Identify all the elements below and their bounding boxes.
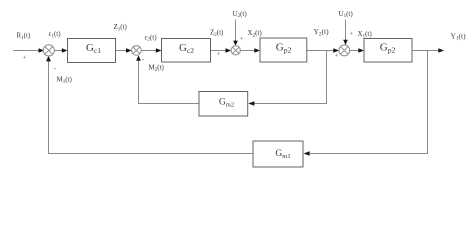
svg-text:+: + [217, 51, 221, 58]
svg-text:ε2(t): ε2(t) [145, 33, 158, 42]
svg-text:+: + [335, 53, 339, 60]
svg-text:U2(t): U2(t) [233, 10, 248, 19]
svg-text:M1(t): M1(t) [57, 76, 73, 85]
svg-text:Z1(t): Z1(t) [114, 23, 128, 32]
svg-text:X1(t): X1(t) [358, 30, 373, 39]
svg-text:+: + [240, 36, 244, 43]
svg-text:X2(t): X2(t) [248, 29, 263, 38]
svg-text:Y1(t): Y1(t) [451, 31, 467, 41]
svg-text:U1(t): U1(t) [339, 10, 354, 19]
svg-text:Y2(t): Y2(t) [314, 27, 330, 37]
svg-text:R1(t): R1(t) [17, 32, 31, 41]
svg-text:-: - [142, 57, 144, 64]
svg-text:M2(t): M2(t) [149, 64, 165, 73]
svg-text:+: + [22, 55, 26, 62]
svg-text:ε1(t): ε1(t) [49, 30, 62, 39]
svg-text:Z2(t): Z2(t) [210, 29, 224, 38]
svg-text:-: - [54, 66, 56, 73]
svg-text:+: + [350, 30, 354, 37]
